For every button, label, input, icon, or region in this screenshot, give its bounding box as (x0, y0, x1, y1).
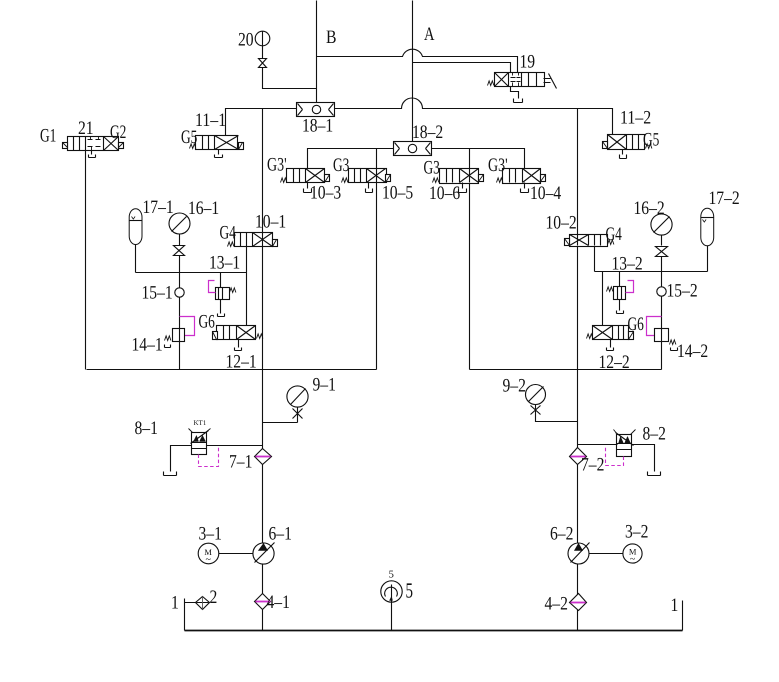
breather filter 2 (196, 597, 210, 610)
relief valve 13-1 (216, 288, 236, 300)
svg-text:B: B (326, 27, 337, 48)
svg-text:G2: G2 (110, 122, 126, 143)
label 10-4 (530, 183, 562, 204)
node B label (326, 27, 337, 48)
svg-text:G5: G5 (181, 127, 197, 148)
label G2 (110, 122, 126, 143)
wire 8-2 from riser (578, 444, 618, 446)
svg-text:KT1: KT1 (194, 419, 207, 427)
wire 18-2 left to 10-3 and 10-5 (308, 149, 394, 169)
svg-text:17–2: 17–2 (709, 188, 740, 209)
svg-text:1: 1 (171, 593, 179, 614)
label 7-2 (581, 455, 604, 476)
check filter 7-2 (570, 448, 587, 465)
label 14-2 (677, 341, 708, 362)
wire 19 drain (511, 87, 519, 99)
node A label (424, 24, 435, 45)
label 3-1 (199, 524, 222, 545)
gauge 9-2 (526, 385, 546, 405)
svg-text:G1: G1 (40, 126, 56, 147)
label 1 left (171, 593, 179, 614)
svg-text:13–2: 13–2 (612, 254, 643, 275)
throttle below 9-2 (531, 406, 541, 415)
wire 17-2 drop (707, 246, 709, 272)
tank below 11-2 (620, 150, 627, 159)
wire 8-2 to tank (632, 445, 655, 472)
svg-text:G3: G3 (333, 155, 349, 176)
svg-text:15–2: 15–2 (667, 281, 698, 302)
svg-text:18–2: 18–2 (412, 122, 443, 143)
wire A to valve 19 (413, 63, 511, 73)
label G6 right (628, 314, 644, 335)
svg-text:8–1: 8–1 (135, 418, 158, 439)
svg-text:14–1: 14–1 (132, 335, 163, 356)
label 20 (238, 30, 254, 51)
label 10-1 (255, 212, 286, 233)
svg-text:G3: G3 (424, 158, 440, 179)
label 4-2 (545, 594, 568, 615)
wire 12-2 tank stem (610, 340, 612, 348)
pump 6-1 (253, 543, 275, 565)
relief valve 8-2 (614, 430, 636, 457)
label 15-2 (667, 281, 698, 302)
svg-text:6–2: 6–2 (550, 524, 573, 545)
accumulator 17-1 (129, 209, 142, 245)
valve 11-1 (190, 136, 244, 150)
label G4 right (606, 224, 623, 245)
wire 10-2 outlet down (594, 246, 596, 272)
shutoff valve below 16-1 (174, 246, 185, 256)
check valve 15-1 (175, 288, 184, 297)
pilot dashed 8-2 (606, 446, 624, 466)
tank below 10-6 (459, 183, 467, 193)
tank below 21 (89, 155, 96, 158)
svg-text:21: 21 (78, 118, 94, 139)
valve 11-2 (603, 135, 652, 150)
label 1 right (671, 595, 679, 616)
tank below 12-1 (235, 348, 242, 351)
shutoff valve below 20 (259, 59, 267, 68)
tank below 19 (514, 99, 523, 103)
wire 15-1 14-1 branch down (179, 273, 181, 370)
wire left tank stub 1 (185, 599, 196, 631)
svg-text:G5: G5 (643, 130, 659, 151)
wire 16-2 to header (661, 236, 663, 272)
wire A supply vertical (412, 1, 414, 142)
motor 3-1 (198, 543, 219, 565)
svg-text:9–2: 9–2 (503, 376, 526, 397)
label 10-3 (310, 183, 341, 204)
label 13-2 (612, 254, 643, 275)
label 5 small (389, 570, 394, 581)
wire right drain header (470, 183, 662, 370)
svg-text:20: 20 (238, 30, 254, 51)
label 8-2 (643, 424, 666, 445)
svg-text:4–1: 4–1 (267, 592, 290, 613)
wire valve 21 outlet down (85, 151, 87, 370)
label 3-2 (625, 522, 648, 543)
label G5 left (181, 127, 197, 148)
label 2 (210, 587, 218, 608)
wire 13-2 pilot stem (619, 272, 621, 311)
filter 4-2 (570, 594, 587, 611)
wire through 10-1 cell (262, 233, 264, 247)
label 10-6 (429, 183, 460, 204)
label G4 left (220, 223, 237, 244)
tank below 14-2 (671, 348, 678, 351)
svg-text:G3': G3' (267, 155, 287, 176)
node right accumulator header (595, 271, 708, 273)
gauge 20 (255, 31, 270, 46)
wire 18-1 right to 11-2 with hop over A, branch to 10-2 (335, 98, 613, 235)
svg-text:10–6: 10–6 (429, 183, 460, 204)
wire tank return bottom line (185, 630, 683, 632)
label G5 right (643, 130, 659, 151)
wire 21 tank stem (91, 151, 93, 155)
tank below 10-3 (304, 183, 312, 193)
svg-text:3–1: 3–1 (199, 524, 222, 545)
svg-text:12–2: 12–2 (599, 352, 630, 373)
label 18-2 (412, 122, 443, 143)
label G1 (40, 126, 56, 147)
svg-text:13–1: 13–1 (209, 253, 240, 274)
label 8-1 (135, 418, 158, 439)
wire 8-1 to riser (207, 445, 263, 447)
label 4-1 (267, 592, 290, 613)
label 17-1 (143, 197, 174, 218)
svg-text:10–3: 10–3 (310, 183, 341, 204)
label 19 (520, 52, 536, 73)
label 9-2 (503, 376, 526, 397)
svg-text:~: ~ (630, 554, 636, 565)
svg-text:1: 1 (671, 595, 679, 616)
label 11-2 (620, 108, 651, 129)
svg-text:10–5: 10–5 (382, 183, 413, 204)
label 10-5 (382, 183, 413, 204)
wire gauge 20 drop to B line (263, 47, 317, 89)
svg-text:4–2: 4–2 (545, 594, 568, 615)
gauge 16-2 (651, 214, 672, 235)
wire 9-2 elbow (536, 405, 578, 422)
wire 15-2 14-2 branch down (661, 272, 663, 341)
label G3 10-5 (333, 155, 349, 176)
wire 18-2 right to 10-4 and 10-6 (432, 149, 525, 169)
svg-text:11–2: 11–2 (620, 108, 651, 129)
svg-text:6–1: 6–1 (269, 524, 292, 545)
pilot hook 14-1 (180, 317, 195, 336)
wire 18-1 left to 11-1 and 10-1 branch (226, 109, 297, 233)
label 5 (406, 579, 414, 603)
svg-text:16–2: 16–2 (634, 198, 665, 219)
wire through 10-5 cell (376, 169, 378, 183)
valve 19 (488, 73, 557, 89)
check filter 7-1 (255, 449, 272, 465)
valve 12-2 (587, 326, 634, 340)
svg-text:G3': G3' (488, 155, 508, 176)
valve 10-3 (281, 169, 330, 183)
valve 12-1 (213, 326, 263, 340)
wire left drain header (87, 183, 377, 370)
gauge 16-1 (169, 213, 190, 234)
tank below 8-2 (648, 472, 661, 476)
tank below 8-1 (164, 472, 177, 476)
label G3p 10-4 (488, 155, 508, 176)
svg-text:11–1: 11–1 (195, 110, 226, 131)
flow divider 18-1 (297, 103, 335, 117)
filter 4-1 (255, 594, 271, 610)
svg-text:G4: G4 (220, 223, 237, 244)
label G3p 10-3 (267, 155, 287, 176)
pilot hook 14-2 (647, 317, 662, 336)
wire B to valve 19 with hop over A (317, 49, 518, 72)
svg-text:9–1: 9–1 (313, 375, 336, 396)
label 6-2 (550, 524, 573, 545)
valve 10-1 (228, 233, 278, 247)
svg-text:7–2: 7–2 (581, 455, 604, 476)
tank below 14-1 (165, 345, 171, 348)
wire 16-1 to header (179, 235, 181, 273)
tank below 13-2 (617, 311, 624, 314)
pilot hook 13-2 (626, 281, 634, 293)
wire right pump riser (577, 246, 579, 631)
label 7-1 (229, 452, 252, 473)
svg-text:10–4: 10–4 (530, 183, 562, 204)
label 13-1 (209, 253, 240, 274)
relief valve 13-2 (607, 287, 626, 300)
label 16-1 (188, 198, 219, 219)
wire 12-2 feed (602, 272, 604, 326)
label 18-1 (302, 116, 333, 137)
label G6 left (199, 312, 215, 333)
valve 10-6 (433, 169, 484, 184)
valve 10-2 (565, 235, 614, 247)
svg-text:~: ~ (205, 554, 211, 565)
relief valve 8-1 (189, 429, 211, 455)
label KT1 (194, 419, 207, 427)
svg-text:17–1: 17–1 (143, 197, 174, 218)
svg-text:5: 5 (406, 579, 414, 603)
label 21 (78, 118, 94, 139)
svg-text:19: 19 (520, 52, 536, 73)
label 12-1 (226, 352, 257, 373)
wire 10-1 to 12-1 (246, 247, 248, 326)
label 11-1 (195, 110, 226, 131)
pilot dashed 8-1 (199, 447, 219, 467)
wire 9-1 elbow (263, 407, 298, 423)
svg-text:16–1: 16–1 (188, 198, 219, 219)
check valve 15-2 (657, 287, 666, 296)
flow divider 18-2 (394, 142, 432, 156)
label 16-2 (634, 198, 665, 219)
node left accumulator header (136, 272, 247, 274)
svg-text:12–1: 12–1 (226, 352, 257, 373)
label 14-1 (132, 335, 163, 356)
pump 6-2 (568, 543, 590, 565)
wire through 10-2 cell (577, 235, 579, 246)
svg-text:3–2: 3–2 (625, 522, 648, 543)
svg-text:8–2: 8–2 (643, 424, 666, 445)
tank below 10-4 (521, 183, 529, 193)
label 15-1 (142, 283, 173, 304)
accumulator 17-2 (701, 208, 714, 246)
wire 17-1 drop (135, 245, 137, 273)
unloader valve 14-1 (165, 329, 185, 342)
svg-text:A: A (424, 24, 435, 45)
wire B supply vertical (316, 1, 318, 103)
valve 10-5 (342, 169, 391, 183)
tank below 11-1 (215, 150, 223, 158)
tank below 12-2 (607, 348, 614, 351)
svg-text:14–2: 14–2 (677, 341, 708, 362)
svg-text:18–1: 18–1 (302, 116, 333, 137)
wire 13-1 pilot stem (220, 273, 222, 314)
label 6-1 (269, 524, 292, 545)
gauge 9-1 (287, 386, 308, 407)
svg-text:G6: G6 (199, 312, 215, 333)
tank below 13-1 (218, 314, 225, 317)
label 12-2 (599, 352, 630, 373)
shutoff valve below 16-2 (656, 247, 668, 257)
svg-text:7–1: 7–1 (229, 452, 252, 473)
wire 12-1 tank stem (238, 340, 240, 348)
svg-text:10–2: 10–2 (546, 213, 577, 234)
label 17-2 (709, 188, 740, 209)
wire left pump riser (262, 247, 264, 631)
wire 8-1 to tank (171, 446, 192, 472)
wire right tank stub 1 (682, 601, 684, 631)
valve 21 (63, 137, 124, 151)
wire through 10-6 cell (469, 169, 471, 183)
label 9-1 (313, 375, 336, 396)
valve 10-4 (497, 169, 546, 184)
motor 3-2 (623, 544, 642, 565)
pilot hook 13-1 (209, 281, 216, 293)
wire thermometer 5 stem (391, 585, 393, 631)
svg-text:5: 5 (389, 570, 394, 581)
wire motor shaft 3-1 to 6-1 (219, 553, 253, 555)
label G3 10-6 (424, 158, 440, 179)
svg-text:2: 2 (210, 587, 218, 608)
wire motor shaft 6-2 to 3-2 (589, 553, 624, 555)
svg-text:G6: G6 (628, 314, 644, 335)
svg-text:15–1: 15–1 (142, 283, 173, 304)
label 10-2 (546, 213, 577, 234)
tank below 10-5 (366, 183, 373, 193)
throttle below 9-1 (293, 409, 303, 419)
svg-text:G4: G4 (606, 224, 623, 245)
svg-text:10–1: 10–1 (255, 212, 286, 233)
unloader valve 14-2 (655, 329, 676, 345)
level gauge 5 (381, 581, 402, 603)
